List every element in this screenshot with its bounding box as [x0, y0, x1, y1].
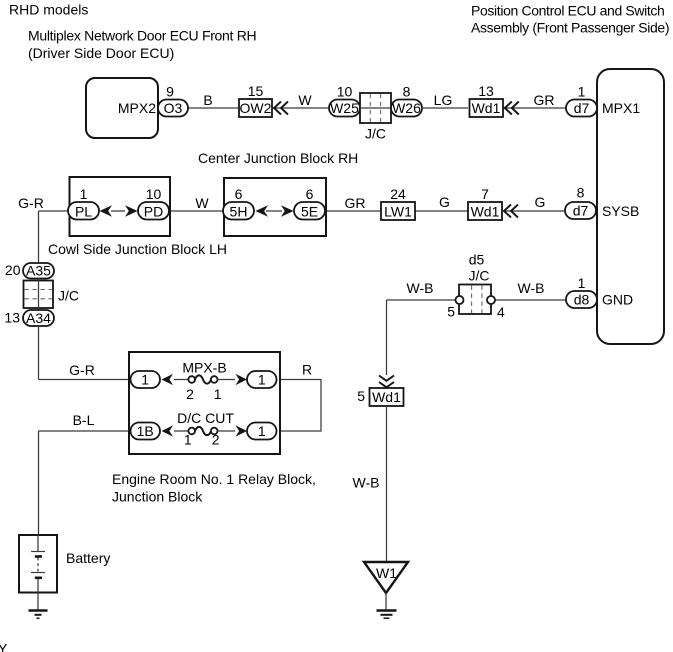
svg-text:SYSB: SYSB — [602, 203, 639, 219]
svg-text:9: 9 — [166, 84, 174, 100]
svg-text:Wd1: Wd1 — [472, 100, 501, 116]
svg-text:Engine Room No. 1 Relay Block,: Engine Room No. 1 Relay Block, — [112, 471, 316, 487]
svg-text:1: 1 — [214, 386, 222, 402]
svg-text:W26: W26 — [392, 100, 421, 116]
svg-text:MPX-B: MPX-B — [182, 360, 226, 376]
svg-text:d5: d5 — [469, 252, 485, 268]
svg-text:6: 6 — [235, 186, 243, 202]
svg-text:10: 10 — [146, 186, 162, 202]
svg-text:G-R: G-R — [69, 362, 95, 378]
svg-text:1: 1 — [578, 84, 586, 100]
svg-text:8: 8 — [403, 84, 411, 100]
svg-text:GND: GND — [602, 292, 633, 308]
svg-text:13: 13 — [4, 310, 20, 326]
svg-text:W-B: W-B — [518, 280, 545, 296]
svg-text:Wd1: Wd1 — [471, 204, 500, 220]
svg-text:5: 5 — [357, 388, 365, 404]
svg-text:PL: PL — [75, 204, 92, 220]
svg-text:J/C: J/C — [365, 126, 386, 142]
svg-text:PD: PD — [144, 204, 163, 220]
svg-text:1: 1 — [80, 186, 88, 202]
svg-text:R: R — [302, 362, 312, 378]
svg-text:GR: GR — [534, 92, 555, 108]
svg-text:8: 8 — [577, 185, 585, 201]
svg-text:Battery: Battery — [66, 550, 110, 566]
svg-text:13: 13 — [478, 83, 494, 99]
svg-text:d7: d7 — [573, 203, 589, 219]
svg-text:(Driver Side Door ECU): (Driver Side Door ECU) — [28, 45, 174, 61]
svg-text:5H: 5H — [230, 204, 248, 220]
svg-text:d8: d8 — [574, 292, 590, 308]
svg-text:Wd1: Wd1 — [372, 389, 401, 405]
svg-text:W-B: W-B — [353, 475, 380, 491]
svg-text:1: 1 — [258, 372, 266, 388]
svg-text:5E: 5E — [301, 204, 318, 220]
svg-text:B-L: B-L — [73, 412, 95, 428]
svg-text:10: 10 — [337, 84, 353, 100]
svg-text:1: 1 — [184, 432, 192, 448]
svg-text:W: W — [195, 195, 209, 211]
svg-text:MPX1: MPX1 — [602, 100, 640, 116]
svg-text:20: 20 — [5, 262, 21, 278]
svg-text:MPX2: MPX2 — [118, 100, 156, 116]
svg-text:RHD models: RHD models — [9, 2, 88, 18]
svg-text:Cowl Side Junction Block LH: Cowl Side Junction Block LH — [48, 241, 227, 257]
svg-text:G: G — [439, 194, 450, 210]
svg-text:24: 24 — [390, 186, 406, 202]
svg-text:LG: LG — [434, 92, 453, 108]
svg-text:A35: A35 — [26, 263, 51, 279]
svg-text:Assembly (Front Passenger Side: Assembly (Front Passenger Side) — [471, 20, 669, 36]
svg-text:B: B — [203, 92, 212, 108]
svg-text:D/C CUT: D/C CUT — [177, 410, 234, 426]
svg-text:1: 1 — [578, 275, 586, 291]
svg-text:1: 1 — [141, 372, 149, 388]
svg-text:15: 15 — [248, 83, 264, 99]
svg-text:2: 2 — [212, 432, 220, 448]
svg-text:A34: A34 — [26, 310, 51, 326]
svg-text:GR: GR — [345, 195, 366, 211]
svg-text:G: G — [535, 194, 546, 210]
svg-text:G-R: G-R — [18, 195, 44, 211]
svg-text:J/C: J/C — [58, 288, 79, 304]
svg-text:W-B: W-B — [407, 280, 434, 296]
svg-text:Multiplex Network Door ECU Fro: Multiplex Network Door ECU Front RH — [28, 28, 256, 44]
svg-text:W: W — [298, 92, 312, 108]
svg-text:1: 1 — [258, 423, 266, 439]
svg-text:W25: W25 — [330, 100, 359, 116]
svg-text:6: 6 — [306, 186, 314, 202]
svg-text:2: 2 — [186, 386, 194, 402]
svg-text:LW1: LW1 — [384, 204, 412, 220]
svg-text:Y: Y — [0, 641, 8, 652]
svg-text:7: 7 — [481, 186, 489, 202]
svg-text:W1: W1 — [376, 565, 397, 581]
svg-text:1B: 1B — [137, 423, 154, 439]
svg-text:OW2: OW2 — [240, 100, 272, 116]
svg-text:5: 5 — [447, 304, 455, 320]
svg-text:Position Control ECU and Switc: Position Control ECU and Switch — [471, 3, 665, 19]
svg-text:J/C: J/C — [469, 268, 490, 284]
svg-text:Center Junction Block RH: Center Junction Block RH — [198, 150, 358, 166]
svg-text:O3: O3 — [164, 100, 183, 116]
svg-text:d7: d7 — [574, 100, 590, 116]
svg-text:4: 4 — [497, 304, 505, 320]
svg-text:Junction Block: Junction Block — [112, 489, 203, 505]
